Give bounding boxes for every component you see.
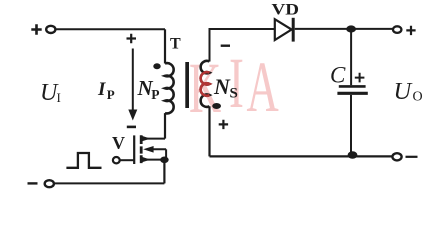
label plus capacitor [355,73,365,83]
wire bottom-left rail [55,182,165,184]
current arrow IP line [132,49,134,111]
capacitor C top plate [339,85,366,88]
pulse waveform symbol [66,153,101,168]
svg-text:P: P [107,87,115,102]
gate terminal circle [113,157,120,163]
label UO [394,78,423,105]
svg-text:N: N [213,74,231,99]
label IP [97,79,115,102]
svg-text:A: A [247,47,279,126]
watermark KIA [189,43,279,127]
wire secondary down [208,106,210,156]
svg-text:T: T [170,35,181,52]
junction dot top [346,25,356,32]
polarity dot primary [153,63,160,69]
secondary winding red watermark overlap [201,72,210,96]
transistor source arrow blob [142,157,151,162]
junction dot source [160,157,169,164]
terminal plus label top-right [406,26,415,35]
inductor secondary winding NS [201,61,210,107]
wire diode to output [295,28,393,30]
wire capacitor bottom [350,95,352,152]
svg-text:P: P [151,87,159,102]
wire primary to drain [164,113,166,139]
wire capacitor top [350,29,352,85]
inductor primary winding NP [165,63,174,113]
wire gate lead [120,159,134,161]
terminal circle top-right [393,26,401,33]
diode VD triangle [275,19,292,40]
wire source down [163,160,165,183]
wire primary drop [164,29,166,63]
wire bottom output rail [210,155,393,157]
svg-text:O: O [413,89,423,104]
svg-text:I: I [229,43,244,122]
current arrow IP head [128,110,137,121]
label minus secondary top [221,45,230,47]
transistor drain arrow blob [142,136,151,141]
svg-text:S: S [230,85,238,101]
svg-text:I: I [57,90,61,105]
polarity dot secondary [212,103,221,109]
terminal plus label top-left [31,24,41,34]
svg-text:VD: VD [272,1,300,18]
transformer core [185,62,189,108]
svg-text:U: U [394,78,414,105]
capacitor C bottom plate [337,92,367,95]
terminal minus label bottom-left [28,182,38,184]
wire top-left rail [57,28,166,30]
label plus primary top [127,34,137,44]
svg-text:I: I [97,79,106,100]
transistor body arrow [143,146,153,153]
label plus secondary bottom [219,120,228,129]
terminal circle bottom-right [392,153,401,160]
svg-text:V: V [112,133,125,153]
wire secondary top to diode [210,29,275,62]
junction dot bottom [348,151,358,158]
label NS [213,74,238,101]
terminal circle top-left [46,26,55,33]
diode VD cathode bar [292,18,295,42]
svg-text:C: C [330,63,346,88]
label UI [40,80,61,106]
label minus primary bottom [127,126,136,129]
transistor V mosfet [134,135,166,164]
terminal circle bottom-left [45,180,54,187]
terminal minus label bottom-right [406,156,418,158]
label NP [137,76,160,102]
